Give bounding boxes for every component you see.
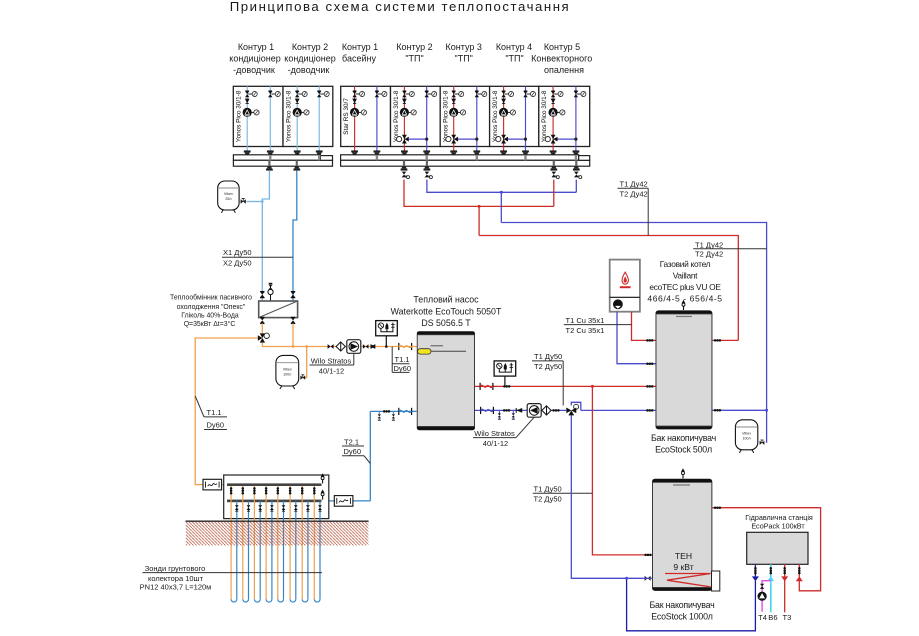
svg-text:Бак накопичувач: Бак накопичувач <box>651 433 716 443</box>
collector right flex box <box>334 496 353 507</box>
svg-text:-доводчик: -доводчик <box>288 65 330 75</box>
circuit box 6 mixer bypass wire <box>508 138 526 140</box>
blue union 1 <box>503 409 510 412</box>
HX top left valve <box>260 292 265 298</box>
wire tank500 right blue <box>712 409 766 411</box>
circuit box 4 pump <box>400 108 417 117</box>
circuit box 5 mixing valve <box>446 135 458 144</box>
circuit box 4 supply check valve <box>402 99 407 104</box>
sensor unit 2 <box>494 361 516 376</box>
magenta pump <box>758 592 767 601</box>
tank500 label <box>651 433 716 455</box>
circuit box 3 return valve <box>375 91 387 97</box>
circuit box 5 supply valve <box>452 91 464 97</box>
wire red drop m2 <box>553 180 555 207</box>
red drop m2 valve <box>552 172 560 179</box>
HX text block <box>170 294 252 328</box>
svg-text:Конвекторного: Конвекторного <box>531 54 592 64</box>
wire glycol flex segment <box>399 346 417 348</box>
circuit box 4 mixing valve <box>397 135 409 144</box>
svg-text:EcoStock 500л: EcoStock 500л <box>655 444 712 454</box>
wire glycol return riser <box>369 411 371 501</box>
circuit box 5 supply check valve <box>451 99 456 104</box>
blue drop m1 valve <box>425 172 433 179</box>
HX bottom right valve <box>291 317 296 323</box>
label T1 T2 Du50 left <box>533 485 593 504</box>
wire blue to tank1000 <box>571 415 643 578</box>
svg-text:Т2.1: Т2.1 <box>344 437 359 446</box>
svg-text:Т2 Ду50: Т2 Ду50 <box>534 494 562 503</box>
ground probe return 6 <box>295 501 297 599</box>
ground probe supply 4 <box>265 486 267 599</box>
probe supply union 7 <box>301 487 304 494</box>
ground probe return 2 <box>248 501 250 599</box>
right manifold top flange x426.7 <box>423 150 430 154</box>
wire expansion vessel 100L drop <box>301 347 307 378</box>
circuit box 1 return valve <box>268 91 280 97</box>
wire boiler blue to tank <box>617 312 656 364</box>
circuit box 4 mixer bypass wire <box>409 138 427 140</box>
ground probe return 3 <box>259 501 261 599</box>
svg-text:ТЕН: ТЕН <box>675 551 692 561</box>
wire red main top <box>479 236 738 341</box>
svg-text:40/1-12: 40/1-12 <box>483 439 508 448</box>
HX top right valve <box>291 292 296 298</box>
left manifold supply bar <box>233 155 320 161</box>
header circuit 2 conditioner <box>284 42 335 75</box>
svg-text:Wilo Stratos: Wilo Stratos <box>311 357 352 366</box>
circuit box 1 return pipe <box>269 86 271 151</box>
tank1000 blue valve <box>645 576 651 581</box>
gas boiler Vaillant box <box>610 260 640 312</box>
wire HX left valve to 3way <box>261 323 263 333</box>
circuit box 5 return valve <box>475 91 487 97</box>
hydro stub2 cyan B6 <box>770 564 772 612</box>
expansion vessel 100L valve <box>300 375 305 380</box>
blue drop m2 valve <box>574 172 582 179</box>
svg-text:Vaillant: Vaillant <box>673 270 698 280</box>
glycol ball valve <box>328 344 334 349</box>
ground probe supply 1 <box>230 486 232 599</box>
right manifold top flange x404.4 <box>401 150 408 154</box>
red flex at heat pump <box>480 383 493 390</box>
tank500 union right1 <box>714 339 721 342</box>
ground probe supply 2 <box>242 486 244 599</box>
circuit box 6 return valve <box>523 91 535 97</box>
right manifold end step <box>579 156 590 161</box>
tank1000 TEN label <box>673 551 693 572</box>
circuit box 3 supply check valve <box>352 99 357 104</box>
wire blue main top <box>501 223 766 411</box>
tank1000 union right <box>714 506 721 509</box>
circuit box 7 supply pipe <box>552 86 554 151</box>
ground probe return 7 <box>307 501 309 599</box>
probe return valve 7 <box>306 505 310 511</box>
ground line <box>186 520 369 522</box>
svg-text:Контур 2: Контур 2 <box>396 42 432 52</box>
circuit box 4 supply pipe <box>403 86 405 151</box>
left manifold top flange x297.2 <box>294 150 301 154</box>
circuit box 5 <box>440 86 489 146</box>
circuit box 7 supply check valve <box>551 99 556 104</box>
collector bottom header <box>227 500 322 503</box>
wire glycol return from collector <box>322 500 371 502</box>
right manifold bottom flange x553.8 <box>550 166 557 170</box>
svg-text:Q=35кВт Δt=3°С: Q=35кВт Δt=3°С <box>184 320 236 328</box>
right manifold channels <box>376 155 378 161</box>
circuit box 1 supply pipe <box>246 86 248 151</box>
tank1000 heating element <box>665 574 711 587</box>
left manifold channels <box>269 155 271 161</box>
wire boiler red to tank <box>632 312 657 341</box>
svg-text:Т2 Ду50: Т2 Ду50 <box>534 362 562 371</box>
header circuit 4 TP <box>496 42 532 64</box>
right manifold top flange x354.6 <box>351 150 358 154</box>
blue union 2 <box>552 409 559 412</box>
hydro stub3 red T3 <box>784 564 786 612</box>
svg-text:Dy60: Dy60 <box>207 421 225 430</box>
svg-text:охолодження "Опекс": охолодження "Опекс" <box>177 304 246 311</box>
right manifold supply bar <box>341 155 579 161</box>
labels T4 B6 T3 <box>758 613 791 622</box>
circuit box 3 <box>341 86 391 146</box>
circuit box 2 supply check valve <box>295 99 300 104</box>
svg-text:Vibex: Vibex <box>283 368 292 372</box>
collector top header <box>227 483 322 486</box>
svg-text:ЕсоРack 100кВт: ЕсоРack 100кВт <box>751 522 805 531</box>
circuit box 7 pump <box>549 108 566 117</box>
wire blue down to vessel valve <box>766 410 768 443</box>
ground probe supply 3 <box>253 486 255 599</box>
blue check valve <box>516 408 522 413</box>
hydraulic station label <box>745 513 813 531</box>
circuit box 3 return pipe <box>376 86 378 151</box>
wire blue main to tank500 <box>581 409 656 411</box>
svg-text:Dy60: Dy60 <box>394 364 412 373</box>
probe supply union 6 <box>289 487 292 494</box>
svg-text:"ТП": "ТП" <box>455 54 473 64</box>
svg-text:Т1.1: Т1.1 <box>207 408 222 417</box>
wire tank500 right red <box>712 339 738 341</box>
3-way valve glycol <box>258 333 270 343</box>
svg-text:кондиціонер: кондиціонер <box>284 54 335 64</box>
probe return valve 6 <box>294 505 298 511</box>
tank1000 label <box>649 600 714 622</box>
probe return valve 1 <box>235 505 239 511</box>
circuit box 6 mixing valve <box>496 135 508 144</box>
hydraulic station EcoPack <box>747 532 808 564</box>
svg-text:Waterkotte EcoTouch 5050T: Waterkotte EcoTouch 5050T <box>391 306 502 316</box>
wire 3way valve down to main <box>262 343 398 347</box>
svg-text:Контур 5: Контур 5 <box>544 42 580 52</box>
circuit box 6 <box>490 86 539 146</box>
circuit box 1 pump <box>243 108 260 117</box>
svg-text:Газовий котел: Газовий котел <box>660 259 711 269</box>
left manifold end step <box>320 156 332 161</box>
circuit box 4 return pipe <box>426 86 428 151</box>
wire red drop m1 <box>404 180 554 207</box>
svg-text:Yonos Pico 30/1-8: Yonos Pico 30/1-8 <box>285 90 292 142</box>
ground probe supply 8 <box>313 486 315 599</box>
svg-text:Контур 4: Контур 4 <box>496 42 532 52</box>
svg-text:Т1 Cu 35х1: Т1 Cu 35х1 <box>566 316 605 325</box>
svg-text:Т2 Cu 35х1: Т2 Cu 35х1 <box>566 326 605 335</box>
circuit box 1 <box>233 86 283 146</box>
circuit box 4 <box>391 86 441 146</box>
svg-text:PN12 40х3,7 L=120м: PN12 40х3,7 L=120м <box>140 583 212 592</box>
probe supply union 5 <box>277 487 280 494</box>
right manifold top flange x553.1 <box>550 150 557 154</box>
right manifold top flange x525.5 <box>522 150 529 154</box>
glycol valve+check <box>363 344 375 349</box>
blue drain 1 <box>498 410 501 419</box>
circuit box 2 supply pipe <box>296 86 298 151</box>
wire blue drop m1 <box>427 180 576 193</box>
wire blue drop m2 <box>575 180 577 193</box>
ground collector box <box>224 475 329 519</box>
svg-text:EcoStock 1000л: EcoStock 1000л <box>651 612 713 622</box>
probe return valve 2 <box>247 505 251 511</box>
label T1.1 Dy60 heat pump <box>392 347 411 374</box>
svg-text:Vibex: Vibex <box>742 432 751 436</box>
circuit box 7 return valve <box>574 91 586 97</box>
wire light blue from left manifold down <box>262 171 269 301</box>
label T1 T2 Cu35x1 <box>564 316 632 335</box>
label ground probes <box>140 564 322 591</box>
ground probe return 8 <box>319 501 321 599</box>
circuit box 7 <box>539 86 590 146</box>
right manifold top flange x575.9 <box>573 150 580 154</box>
svg-text:Т1.1: Т1.1 <box>395 355 410 364</box>
right manifold top flange x376.9 <box>374 150 381 154</box>
svg-text:Yonos Pico 30/1-8: Yonos Pico 30/1-8 <box>393 90 400 142</box>
tank500 union left1 <box>646 339 653 342</box>
circuit box 5 pump <box>449 108 466 117</box>
probe supply union 1 <box>230 487 233 494</box>
svg-text:Контур 2: Контур 2 <box>292 42 328 52</box>
right manifold bottom flange x576.3 <box>573 166 580 170</box>
heat exchanger Opeks <box>259 301 298 318</box>
probe supply union 4 <box>265 487 268 494</box>
heat pump label <box>391 295 502 329</box>
glycol sensor unit <box>376 321 398 336</box>
svg-text:Бак накопичувач: Бак накопичувач <box>649 600 714 610</box>
svg-text:X1 Ду50: X1 Ду50 <box>223 248 252 257</box>
circuit box 3 supply pipe <box>354 86 356 151</box>
svg-text:Т2 Ду42: Т2 Ду42 <box>620 189 648 198</box>
red drop m1 valve <box>402 172 410 179</box>
pump Wilo Stratos blue <box>527 404 541 418</box>
left manifold bottom flange x296.8 <box>293 166 300 170</box>
label Wilo Stratos left <box>310 353 354 375</box>
tank500 union left4 <box>646 409 653 412</box>
svg-text:Yonos Pico 30/1-8: Yonos Pico 30/1-8 <box>492 90 499 142</box>
svg-text:Теплообмінник пасивного: Теплообмінник пасивного <box>170 294 252 302</box>
circuit box 4 return valve <box>425 91 437 97</box>
svg-text:Т1 Ду50: Т1 Ду50 <box>534 485 562 494</box>
svg-text:"ТП": "ТП" <box>405 54 423 64</box>
svg-text:Тепловий насос: Тепловий насос <box>413 295 479 305</box>
tank500 vent <box>682 300 686 310</box>
circuit box 3 supply valve <box>352 91 364 97</box>
ground probe return 1 <box>236 501 238 599</box>
svg-text:Зонди грунтового: Зонди грунтового <box>145 564 206 573</box>
wire expansion vessel 25L connection <box>247 201 263 203</box>
hydro stub1 navy <box>754 564 756 576</box>
left manifold top flange x247.2 <box>244 150 251 154</box>
circuit box 1 supply check valve <box>245 99 250 104</box>
header circuit 5 convector heating <box>531 42 592 75</box>
blue flex at heat pump <box>481 407 494 414</box>
right manifold bottom flange x404.0 <box>401 166 408 170</box>
header circuit 2 TP <box>396 42 432 64</box>
right manifold top flange x503.6 <box>500 150 507 154</box>
collector left flex box <box>203 479 222 490</box>
ground probe supply 6 <box>289 486 291 599</box>
circuit box 5 mixer bypass wire <box>458 138 477 140</box>
svg-text:Wilo Stratos: Wilo Stratos <box>474 429 515 438</box>
circuit box 6 return pipe <box>525 86 527 151</box>
svg-text:Т1 Ду42: Т1 Ду42 <box>620 180 648 189</box>
circuit box 2 <box>283 86 333 146</box>
wire medium blue from left manifold down <box>293 171 297 301</box>
svg-text:Т4: Т4 <box>758 613 767 622</box>
svg-text:Контур 1: Контур 1 <box>342 42 378 52</box>
circuit box 2 return pipe <box>318 86 320 151</box>
svg-text:Yonos Pico 30/1-8: Yonos Pico 30/1-8 <box>541 90 548 142</box>
expansion vessel 25L <box>218 181 239 213</box>
svg-text:-доводчик: -доводчик <box>233 65 275 75</box>
svg-text:9 кВт: 9 кВт <box>673 562 693 572</box>
hydro magenta branch T4 <box>762 581 771 612</box>
ground probe supply 7 <box>301 486 303 599</box>
label T2.1 Dy60 <box>342 437 370 463</box>
circuit box 5 return pipe <box>476 86 478 151</box>
circuit box 7 mixing valve <box>545 135 557 144</box>
label T1 T2 Du42 second <box>693 240 766 258</box>
wire condenser supply red <box>475 385 656 387</box>
source drain 2 <box>392 411 395 420</box>
tank1000 union left1 <box>644 554 651 557</box>
circuit box 7 mixer bypass wire <box>558 138 576 140</box>
header circuit 1 conditioner <box>229 42 280 75</box>
probe return valve 8 <box>318 505 322 511</box>
vessel 100L right valve <box>760 440 765 445</box>
circuit box 6 supply pipe <box>503 86 505 151</box>
wire condenser return blue <box>475 409 566 411</box>
probe supply union 2 <box>242 487 245 494</box>
tank500 union left2 <box>646 362 653 365</box>
circuit box 2 supply valve <box>295 91 307 97</box>
left manifold return bar <box>233 160 332 166</box>
circuit box 2 return valve <box>317 91 329 97</box>
svg-text:Vibex: Vibex <box>224 192 233 196</box>
label T1.1 Dy60 left <box>195 396 227 430</box>
right manifold return bar <box>341 160 590 166</box>
blue drain 2 <box>512 410 515 419</box>
circuit box 7 supply valve <box>551 91 563 97</box>
right manifold top flange x453.7 <box>450 150 457 154</box>
right manifold top flange x476.8 <box>473 150 480 154</box>
svg-text:X2 Ду50: X2 Ду50 <box>223 259 252 268</box>
source blue flex <box>399 408 412 415</box>
circuit box 3 pump <box>350 108 367 117</box>
tank500 union right2 <box>714 409 721 412</box>
circuit box 6 supply valve <box>501 91 513 97</box>
svg-text:Star RS 30/7: Star RS 30/7 <box>343 98 350 135</box>
probe return valve 5 <box>282 505 286 511</box>
svg-text:басейну: басейну <box>342 54 376 64</box>
wire red to tank1000 <box>592 386 653 555</box>
wire glycol supply left <box>195 338 258 485</box>
circuit box 1 supply valve <box>245 91 257 97</box>
svg-text:ecoTEC plus VU OE: ecoTEC plus VU OE <box>649 282 721 292</box>
boiler pump <box>613 300 622 309</box>
heat pump Waterkotte <box>417 331 475 430</box>
magenta valve <box>760 584 764 589</box>
right manifold bottom flange x426.9 <box>424 166 431 170</box>
wire 3way jog <box>571 402 581 410</box>
boiler flame <box>620 272 631 287</box>
svg-text:Yonos Pico 30/1-8: Yonos Pico 30/1-8 <box>236 90 243 142</box>
tank1000 element housing <box>712 571 720 591</box>
collector bottom header vent <box>321 489 325 499</box>
header circuit 1 pool <box>342 42 378 64</box>
svg-text:Контур 1: Контур 1 <box>238 42 274 52</box>
probe return valve 3 <box>258 505 262 511</box>
svg-text:Принципова схема системи тепло: Принципова схема системи теплопостачання <box>230 0 571 14</box>
ground probe return 4 <box>271 501 273 599</box>
label Wilo Stratos blue <box>473 417 534 448</box>
svg-text:кондиціонер: кондиціонер <box>229 54 280 64</box>
svg-text:40/1-12: 40/1-12 <box>319 367 344 376</box>
wire navy branch down <box>627 578 756 631</box>
buffer tank EcoStock 500L <box>656 310 713 429</box>
source blue union <box>383 410 390 413</box>
glycol pump Wilo Stratos 40/1-12 <box>347 340 361 354</box>
svg-text:опалення: опалення <box>544 65 584 75</box>
svg-text:Контур 3: Контур 3 <box>446 42 482 52</box>
ground hatch <box>186 522 369 546</box>
left manifold top flange x319.2 <box>316 150 323 154</box>
wire HX right valve down <box>292 323 294 346</box>
svg-text:466/4-5 - 656/4-5: 466/4-5 - 656/4-5 <box>647 293 722 303</box>
expansion vessel 100L right <box>735 420 757 453</box>
glycol sensor stem <box>385 336 387 347</box>
expansion vessel 25L valve <box>241 199 246 204</box>
left manifold top flange x270.3 <box>267 150 274 154</box>
3-way valve heating <box>566 404 578 415</box>
svg-text:Т3: Т3 <box>782 613 791 622</box>
svg-text:DS 5056.5 T: DS 5056.5 T <box>421 318 471 328</box>
probe return valve 4 <box>270 505 274 511</box>
circuit box 4 supply valve <box>402 91 414 97</box>
blue filter <box>542 406 551 415</box>
svg-text:25л: 25л <box>225 197 231 201</box>
glycol filter <box>336 342 345 351</box>
circuit box 5 supply pipe <box>453 86 455 151</box>
svg-text:В6: В6 <box>768 613 777 622</box>
svg-text:Гліколь 40%-Вода: Гліколь 40%-Вода <box>181 311 239 319</box>
buffer tank EcoStock 1000L <box>652 479 712 591</box>
tank500 union left3 <box>646 385 653 388</box>
svg-text:"ТП": "ТП" <box>505 54 523 64</box>
left manifold bottom flange x269.4 <box>266 166 273 170</box>
svg-text:100л: 100л <box>283 373 291 377</box>
collector top header vent <box>321 473 325 483</box>
wire blue riser junction <box>500 192 502 222</box>
HX bottom left valve <box>260 317 265 323</box>
